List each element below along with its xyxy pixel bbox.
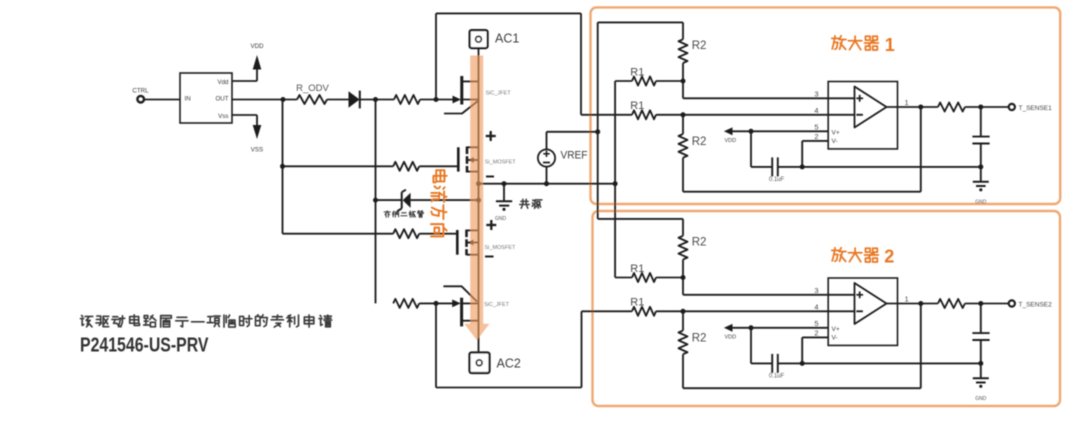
svg-text:4: 4 — [814, 302, 818, 311]
svg-text:1: 1 — [885, 35, 895, 55]
svg-text:1: 1 — [905, 295, 909, 304]
svg-text:R1: R1 — [630, 297, 644, 309]
svg-text:VDD: VDD — [725, 335, 737, 341]
svg-text:VDD: VDD — [250, 43, 264, 50]
svg-text:V+: V+ — [832, 129, 840, 136]
svg-text:T_SENSE1: T_SENSE1 — [1019, 105, 1053, 112]
svg-text:2: 2 — [884, 246, 894, 266]
svg-text:SiC_JFET: SiC_JFET — [484, 302, 510, 308]
svg-text:2: 2 — [814, 329, 818, 338]
svg-text:5: 5 — [814, 319, 818, 328]
svg-text:GND: GND — [975, 199, 987, 205]
svg-text:Vss: Vss — [218, 113, 228, 120]
svg-text:5: 5 — [814, 123, 818, 132]
svg-text:CTRL: CTRL — [132, 87, 149, 94]
svg-text:R1: R1 — [630, 263, 644, 275]
svg-text:V+: V+ — [832, 326, 840, 333]
svg-text:GND: GND — [495, 216, 507, 222]
svg-text:3: 3 — [814, 89, 818, 98]
svg-text:R2: R2 — [692, 237, 707, 249]
svg-text:OUT: OUT — [215, 96, 228, 103]
svg-text:1: 1 — [905, 98, 909, 107]
svg-text:R2: R2 — [692, 40, 707, 52]
svg-text:R1: R1 — [630, 100, 644, 112]
svg-text:T_SENSE2: T_SENSE2 — [1019, 301, 1053, 308]
svg-text:4: 4 — [814, 106, 818, 115]
svg-text:P241546-US-PRV: P241546-US-PRV — [80, 335, 209, 357]
svg-text:R_ODV: R_ODV — [296, 83, 329, 94]
svg-text:VREF: VREF — [561, 150, 588, 162]
svg-text:V-: V- — [832, 335, 838, 342]
svg-text:Si_MOSFET: Si_MOSFET — [485, 245, 517, 251]
svg-text:0.1uF: 0.1uF — [769, 177, 785, 183]
svg-text:2: 2 — [814, 132, 818, 141]
svg-text:Si_MOSFET: Si_MOSFET — [485, 160, 517, 166]
svg-text:SiC_JFET: SiC_JFET — [486, 91, 512, 97]
svg-text:IN: IN — [185, 96, 191, 103]
svg-text:V-: V- — [832, 138, 838, 145]
svg-text:3: 3 — [814, 286, 818, 295]
svg-text:VDD: VDD — [725, 138, 737, 144]
svg-text:AC1: AC1 — [495, 32, 519, 46]
svg-text:R1: R1 — [630, 66, 644, 78]
svg-text:VSS: VSS — [251, 147, 263, 154]
svg-text:R2: R2 — [692, 333, 707, 345]
svg-text:Vdd: Vdd — [217, 79, 229, 86]
svg-text:0.1uF: 0.1uF — [769, 374, 785, 380]
svg-text:GND: GND — [975, 396, 987, 402]
svg-text:R2: R2 — [692, 136, 707, 148]
svg-text:AC2: AC2 — [497, 357, 521, 371]
